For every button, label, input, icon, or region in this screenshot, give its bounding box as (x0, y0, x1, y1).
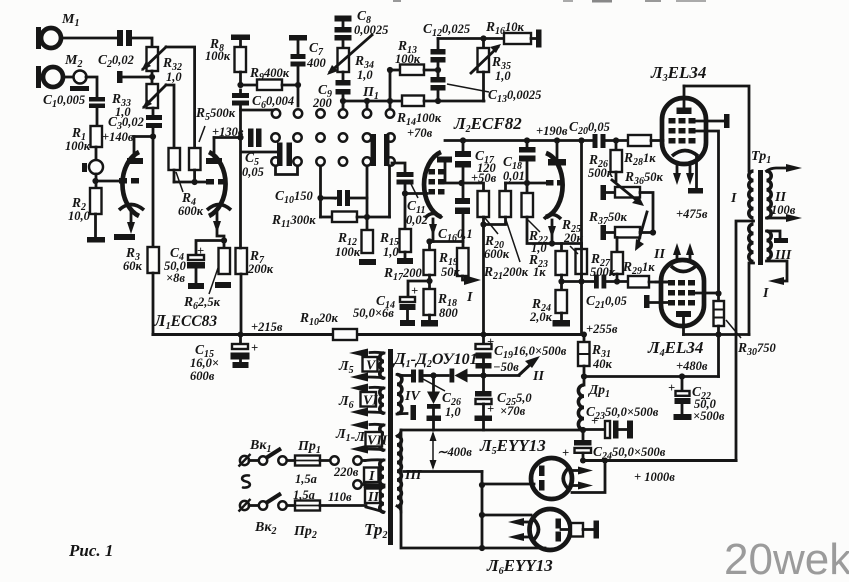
transformer Tr1 secondary III coil (767, 231, 792, 263)
diode Д1 (427, 376, 442, 431)
wire Л5 to +1000 bus (572, 461, 605, 493)
transformer Tr1 primary I coil (730, 171, 754, 262)
fuse Пр1 1,5а (295, 439, 339, 486)
resistor R26 500k (588, 141, 622, 182)
capacitor C16 0,1 (438, 183, 473, 244)
triode Л1a cathode (119, 205, 144, 235)
tube Л3 envelope (662, 98, 706, 164)
svg-text:220в: 220в (333, 465, 359, 479)
ground bar R15 (397, 252, 413, 264)
switch Вк1 (239, 438, 296, 467)
switch Вк2 (239, 494, 296, 538)
wire top tone net y38.5 (438, 35, 504, 41)
wire cathode node y243 (549, 240, 582, 251)
svg-text:1,5а: 1,5а (293, 488, 315, 502)
svg-text:+190в: +190в (536, 124, 568, 138)
svg-text:Л2ECF82: Л2ECF82 (453, 114, 522, 135)
transformer Tr1 secondary II coil (767, 171, 796, 218)
winding II primary 110в (328, 486, 384, 512)
svg-text:+: + (668, 381, 675, 395)
wire grid Л2 pentode (405, 192, 427, 195)
triode Л1a envelope (122, 152, 139, 216)
node R32/R33 junction with tap bar (117, 71, 155, 84)
resistor R25 20k (561, 217, 587, 282)
svg-text:1,0: 1,0 (495, 69, 511, 83)
wire C6 to terminal (241, 109, 273, 112)
svg-text:I: I (466, 290, 473, 305)
tube Л5 rectifier (482, 458, 593, 499)
resistor R17 200 (383, 242, 435, 290)
triode Л2b grid dashes (546, 180, 565, 186)
svg-text:600в: 600в (190, 369, 215, 383)
connector jack after M2 (63, 71, 89, 92)
wire C5 to x241 (241, 151, 276, 154)
resistor R15 1,0 (379, 229, 411, 259)
capacitor C25 5,0x70в (475, 376, 533, 431)
svg-text:Рис. 1: Рис. 1 (68, 541, 113, 560)
winding I primary 220в (333, 460, 384, 485)
resistor R29 1k (622, 259, 669, 288)
svg-text:Л6EYY13: Л6EYY13 (486, 556, 553, 577)
microphone M1 (36, 12, 79, 49)
wire R7 to bus (240, 274, 243, 335)
svg-text:×70в: ×70в (500, 404, 526, 418)
svg-text:1,0: 1,0 (383, 245, 399, 259)
resistor R28 1k (623, 135, 663, 168)
svg-text:600к: 600к (178, 204, 204, 218)
resistor R4 600k (169, 148, 204, 218)
resistor R7 200k (236, 248, 274, 276)
label C5 0,05 (242, 150, 264, 179)
winding VII with arrows (335, 421, 388, 454)
terminal 220в (353, 456, 365, 464)
svg-text:1,5а: 1,5а (295, 472, 317, 486)
winding VI with arrows (338, 384, 384, 417)
output arrow I (463, 275, 482, 305)
wire +480в bus (584, 359, 719, 380)
svg-text:50к: 50к (441, 265, 461, 279)
resistor R8 100k with terminal bar (205, 35, 250, 86)
wire screen line x581 (580, 141, 583, 335)
capacitor C24 50,0x500в (562, 430, 666, 462)
svg-text:∼400в: ∼400в (437, 445, 472, 459)
svg-text:600к: 600к (484, 247, 510, 261)
svg-text:100к: 100к (335, 245, 361, 259)
capacitor C2 0,02 (98, 30, 134, 70)
node bias line (480, 372, 486, 378)
svg-text:100к: 100к (395, 52, 421, 66)
svg-text:+: + (487, 402, 494, 416)
wire R11 node up to terminal column 6 (388, 166, 391, 217)
resistor R1 100k (65, 108, 102, 153)
choke Др1 (578, 377, 610, 430)
svg-text:Д1-Д2ОУ101: Д1-Д2ОУ101 (392, 349, 478, 370)
wire U-link below C5 (276, 166, 298, 175)
svg-text:100к: 100к (205, 49, 231, 63)
resistor R12 100k (335, 217, 373, 259)
tube Л4 grid2 lead (695, 290, 722, 296)
wire heater box outline (401, 430, 583, 548)
capacitor C11 0,02 (392, 163, 428, 229)
resistor R20 600k (478, 191, 510, 335)
wire box C10/R11 left (319, 166, 322, 217)
winding IV Tr2 (397, 374, 421, 420)
resistor R30 750 (714, 294, 777, 359)
capacitor C18 0,01 (503, 141, 536, 184)
pentode Л2a envelope (424, 152, 441, 217)
capacitor C12 0,025 (423, 21, 470, 73)
tube Л3 grid2 lead with end bar (696, 114, 730, 128)
ground bar R12 (359, 259, 376, 265)
svg-text:20wek: 20wek (724, 535, 849, 582)
svg-text:Л1ECC83: Л1ECC83 (153, 311, 217, 332)
svg-text:100к: 100к (65, 139, 91, 153)
pentode Л2a grid squares (429, 169, 445, 195)
svg-text:II: II (532, 369, 544, 384)
arrow Tr1 II bottom (767, 214, 803, 222)
svg-text:Л4EL34: Л4EL34 (647, 338, 703, 359)
triode Л1b grid dashes (206, 179, 226, 185)
connector jack input of triode (82, 147, 103, 174)
tube Л4 grid1 lead from R29 (656, 281, 668, 284)
svg-text:+130в: +130в (212, 125, 244, 139)
potentiometer R34 1,0 (327, 35, 374, 82)
wire C3 node down to R3 (152, 137, 155, 248)
capacitor C7 400 with terminal bar (289, 35, 327, 106)
svg-text:+140в: +140в (102, 130, 134, 144)
svg-text:0,01: 0,01 (503, 169, 525, 183)
svg-text:VI: VI (363, 394, 378, 409)
svg-text:Л5EYY13: Л5EYY13 (479, 436, 546, 457)
capacitor C5 contact bars pair A (248, 129, 262, 148)
switch П1 terminal row 2 (271, 133, 394, 141)
potentiometer R37 50k (588, 209, 665, 262)
transformer Tr2 core (388, 349, 393, 545)
svg-text:I: I (762, 286, 769, 301)
tube Л3 grid3 lead (696, 131, 719, 294)
svg-text:1,0: 1,0 (357, 68, 373, 82)
svg-text:60к: 60к (123, 259, 143, 273)
node R8/R9/C6 (237, 82, 243, 88)
capacitor C13 0,0025 (431, 70, 542, 105)
resistor R16 10k with end bar (485, 19, 542, 48)
resistor R27 500k (590, 238, 623, 285)
capacitor C4 50,0x8в (187, 241, 224, 284)
capacitor C15 16,0x600в (190, 335, 258, 384)
wire main +215в bus (153, 320, 618, 338)
triode Л2b cathode (544, 215, 561, 244)
pentode Л2a anode (437, 157, 461, 184)
svg-text:II: II (367, 490, 379, 505)
ground bar R24 (553, 313, 571, 327)
capacitor C5 contact bars pair B (277, 143, 292, 167)
resistor R2 10,0 (68, 188, 102, 237)
capacitor C26 1,0 (402, 370, 461, 420)
ground bar cathode1 (114, 234, 135, 240)
svg-text:+480в: +480в (676, 359, 708, 373)
label C4 50,0 x8в (164, 245, 187, 285)
resistor R23 1k (528, 251, 567, 290)
capacitor C14 50,0x6в (353, 281, 430, 326)
triode Л1a grid dashes (119, 178, 139, 184)
AC source squiggle (242, 475, 250, 487)
svg-text:1,0: 1,0 (166, 70, 182, 84)
wire +140в anode1 to C3 column (102, 130, 156, 144)
triode Л1a anode (127, 137, 143, 165)
wire grid1 (96, 180, 119, 183)
resistor R14 100k (396, 96, 484, 141)
svg-text:200: 200 (312, 96, 333, 110)
potentiometer R32 1,0 (141, 47, 182, 84)
wire triode grid net (506, 180, 547, 186)
capacitor C8 0,0025 with terminal bar (335, 8, 389, 48)
capacitor C9 200 (312, 72, 351, 110)
wire +190в plate supply y140 (445, 124, 593, 144)
wire Tr1 primary bottom (749, 263, 754, 335)
svg-text:110в: 110в (328, 490, 352, 504)
svg-text:200к: 200к (247, 262, 274, 276)
wire R3 to ground bus (152, 273, 155, 335)
ground bar R18 (421, 315, 438, 327)
svg-text:Л3EL34: Л3EL34 (650, 63, 706, 84)
wire screens to +480 bus (717, 335, 720, 377)
svg-text:10,0: 10,0 (68, 209, 91, 223)
fuse Пр2 1,5а (293, 488, 366, 541)
resistor R3 60k (123, 245, 159, 273)
wire R32 wiper to feedback line (166, 47, 195, 148)
transformer Tr1 core (758, 170, 763, 265)
resistor R31 40k (578, 335, 613, 380)
triode Л1b anode (206, 138, 222, 165)
wire anode node to R20 (462, 183, 484, 191)
node cathode2 junction (221, 237, 227, 243)
wire +130в anode2 to x241 (212, 125, 244, 141)
svg-text:+: + (251, 341, 258, 355)
winding III secondary 400в (397, 430, 422, 512)
resistor R18 800 (424, 289, 459, 320)
terminal 110в (353, 480, 365, 488)
wire R36 to R37 right link (640, 193, 656, 236)
resistor R21 200k (483, 183, 529, 282)
pentode Л2a cathode (425, 214, 442, 242)
page-top scan remnants (393, 0, 706, 3)
svg-text:II: II (653, 247, 665, 262)
tube Л4 grid3 terminal bar (644, 295, 668, 308)
node pentode anode/C17 (458, 180, 464, 186)
wire R33 wiper to R4 (166, 85, 174, 148)
arrow II bias output (484, 356, 545, 384)
wire Л3 anode to Tr1 top (684, 86, 749, 171)
resistor R6 2,5k (183, 241, 230, 313)
svg-text:2,0к: 2,0к (529, 310, 553, 324)
tube Л6 rectifier (482, 509, 599, 550)
switch П1 terminal row 1 (272, 109, 394, 117)
tube Л4 heater arrows (673, 243, 694, 259)
tube Л4 envelope (661, 260, 704, 326)
ground bar R2 (87, 237, 105, 243)
ground bar Л3 cathode (688, 188, 703, 194)
diode Д2 (434, 369, 484, 383)
tube Л3 anode (677, 86, 692, 114)
capacitor C3 0,02 (108, 108, 162, 137)
wire M1 to C2 (61, 37, 117, 40)
tube Л4 cathode (671, 266, 696, 272)
resistor R9 400k (241, 65, 299, 90)
svg-text:I: I (730, 191, 737, 206)
svg-text:40к: 40к (592, 357, 613, 371)
svg-text:400: 400 (306, 56, 327, 70)
triode Л1b envelope (209, 152, 226, 216)
svg-text:+475в: +475в (676, 207, 708, 221)
svg-text:IV: IV (404, 389, 421, 404)
svg-text:50,0×6в: 50,0×6в (353, 306, 394, 320)
capacitor C1 0,005 (43, 77, 105, 110)
capacitor C17 120 +50в (455, 141, 497, 186)
triode Л1b cathode (207, 205, 231, 241)
ground bar C4 (188, 283, 204, 289)
wire box C10/R11 right (366, 166, 369, 217)
resistor R5 500k (189, 105, 236, 182)
wire bias net y281 with C21 (562, 278, 595, 284)
resistor R10 20k (299, 310, 357, 340)
capacitor C21 0,05 (586, 275, 628, 312)
svg-text:0,05: 0,05 (242, 165, 264, 179)
svg-text:100в: 100в (771, 203, 796, 217)
svg-text:+: + (562, 446, 569, 460)
potentiometer R36 50k (601, 169, 664, 206)
svg-text:16,0×: 16,0× (190, 356, 219, 370)
capacitor C19 16,0x500в (476, 335, 567, 376)
svg-text:VII: VII (367, 434, 388, 449)
wire grid2 net (174, 179, 206, 185)
tube Л4 anode (676, 311, 691, 335)
resistor R24 2,0k (529, 290, 567, 324)
svg-text:+215в: +215в (251, 320, 283, 334)
potentiometer R35 1,0 (471, 39, 511, 102)
capacitor C22 50,0x500в (668, 377, 725, 424)
winding V with arrows (338, 349, 384, 382)
wire +1000в bus (580, 458, 736, 485)
resistor R22 1,0 (522, 183, 553, 255)
wire Tr1 center tap (736, 221, 754, 461)
arrow Tr1 II top (767, 164, 803, 172)
wire cathode net y241 (426, 238, 463, 248)
wire lower tone net y101 (340, 98, 402, 108)
triode Л2b envelope (546, 153, 563, 217)
tube Л3 grid squares (669, 118, 696, 144)
switch П1 terminal row 3 (271, 157, 394, 165)
node C23/C24 (580, 427, 586, 433)
svg-text:I: I (368, 469, 375, 484)
microphone M2 (36, 53, 82, 88)
tube Л3 cathode (672, 151, 698, 189)
wire Л4 anode to Tr1 bottom (684, 331, 750, 337)
svg-text:+ 1000в: + 1000в (634, 470, 675, 484)
node C7/R9 (295, 82, 301, 88)
ground bar R6 (215, 282, 231, 288)
switch contact bars pair C at C11 (371, 134, 390, 166)
capacitor C10 150 (275, 188, 367, 206)
potentiometer R33 1,0 (111, 84, 166, 119)
wire C2 to R32 (132, 38, 152, 47)
wire x241 vertical C6 to R7 (239, 110, 242, 248)
svg-text:500к: 500к (588, 166, 614, 180)
svg-text:+255в: +255в (586, 322, 618, 336)
resistor R11 300k (271, 212, 390, 231)
triode Л2b anode (548, 141, 566, 166)
svg-text:×500в: ×500в (693, 409, 725, 423)
node Д1/Д2 (430, 372, 436, 378)
wire Tr1 III top with bar (767, 231, 789, 243)
wire III to heater line (404, 472, 485, 552)
svg-text:×8в: ×8в (166, 271, 185, 285)
svg-text:1к: 1к (533, 265, 546, 279)
capacitor C23 50,0x500в (583, 404, 659, 439)
wire Tr1 III bottom with arrow (762, 261, 787, 301)
resistor R19 50k (438, 248, 469, 279)
resistor R13 100k (387, 38, 438, 101)
svg-text:−50в: −50в (493, 360, 519, 374)
capacitor C6 0,004 (232, 90, 294, 111)
dimension arrow ~400в (430, 431, 473, 470)
svg-text:1,0: 1,0 (445, 405, 461, 419)
svg-text:+70в: +70в (407, 126, 433, 140)
svg-text:800: 800 (439, 306, 459, 320)
svg-text:0,02: 0,02 (406, 213, 428, 227)
tube Л3 heater arrows (673, 166, 694, 185)
capacitor C20 0,05 (569, 119, 628, 148)
tube Л4 grid squares (668, 280, 695, 306)
node grid1 junction (92, 174, 98, 188)
